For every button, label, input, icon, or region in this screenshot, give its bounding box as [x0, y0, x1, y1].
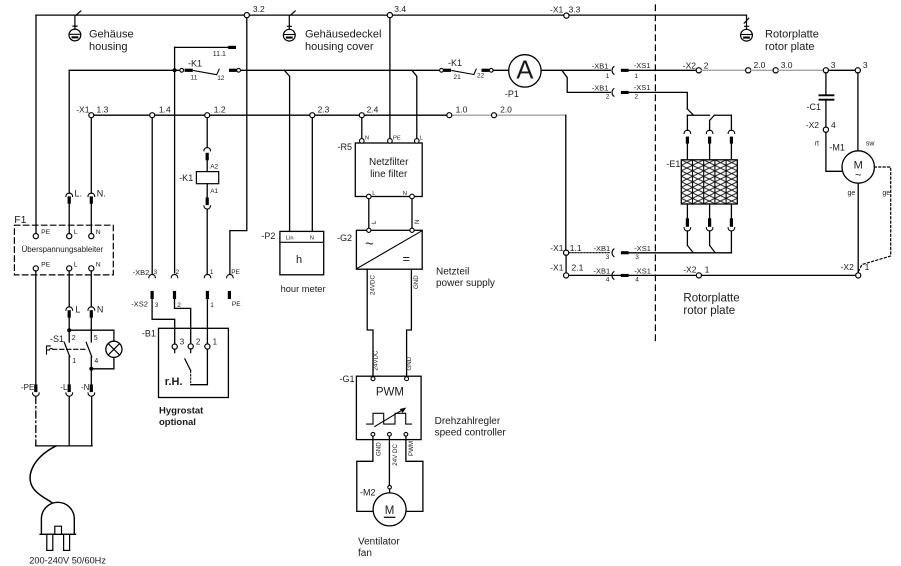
- svg-text:1.0: 1.0: [456, 105, 468, 115]
- ground Rotorplatte rotor plate: [741, 15, 819, 53]
- wire coil to A1 pin: [206, 184, 208, 198]
- svg-text:1: 1: [705, 265, 710, 275]
- svg-text:24VDC: 24VDC: [373, 350, 380, 370]
- wire tap to R5 L: [412, 70, 417, 138]
- wire cord bundle: [36, 445, 92, 447]
- svg-text:3.3: 3.3: [569, 5, 581, 15]
- wire N to cord: [91, 397, 93, 446]
- connector heater bottom pin 1: [684, 204, 691, 231]
- wire node3 to node3b: [829, 69, 856, 71]
- svg-text:-XS1: -XS1: [634, 83, 651, 92]
- heater bottom blade left: [687, 245, 693, 252]
- wire 3.2 to XB2 PE: [230, 18, 247, 275]
- connector heater top pin 2: [706, 130, 713, 160]
- S1 manual actuator F: [47, 346, 53, 354]
- svg-text:ge: ge: [882, 190, 890, 197]
- connector N socket-pin row2: [88, 304, 103, 317]
- connector XB1/XS1 pin 2: [592, 83, 651, 101]
- wire S1-1 down: [68, 357, 70, 385]
- dashed separator rotor plate: [654, 5, 656, 342]
- svg-text:-XS1: -XS1: [634, 61, 651, 70]
- wire A2 to coil: [206, 160, 208, 171]
- connector -PE pin-socket: [21, 383, 39, 396]
- wire 1.4 to XB2-3: [151, 118, 153, 275]
- wire K1 row main: [69, 69, 180, 71]
- svg-text:ge: ge: [848, 190, 856, 197]
- wire XS1-1 to X2:2: [629, 69, 697, 71]
- B1 contact travel dashes: [190, 371, 192, 384]
- wire R5 to G2 left: [369, 199, 378, 228]
- svg-text:4: 4: [635, 276, 639, 283]
- heater top blade middle: [710, 115, 715, 120]
- svg-text:-XB1: -XB1: [594, 266, 611, 275]
- connector -L pin-socket: [60, 383, 72, 396]
- svg-text:GND: GND: [406, 356, 413, 370]
- node X1 2.1: [550, 262, 583, 278]
- svg-text:2.0: 2.0: [500, 105, 512, 115]
- svg-text:Ventilator: Ventilator: [358, 537, 400, 548]
- svg-text:L.: L.: [75, 188, 83, 198]
- svg-text:L: L: [371, 220, 378, 224]
- heater bottom blade middle: [710, 246, 716, 253]
- svg-text:=: =: [403, 251, 411, 266]
- svg-text:2.1: 2.1: [572, 262, 584, 272]
- wire tap to XB1-2: [562, 70, 610, 92]
- svg-text:-XB1: -XB1: [594, 244, 611, 253]
- wire PE dash-dot to cord: [35, 397, 37, 446]
- B1 contact blade: [185, 359, 191, 371]
- svg-text:Hygrostat: Hygrostat: [159, 406, 204, 417]
- heater top drops: [687, 115, 731, 130]
- svg-text:24V DC: 24V DC: [392, 444, 399, 466]
- svg-text:-R5: -R5: [338, 142, 353, 152]
- R5 terminal L: [415, 135, 424, 143]
- svg-text:2: 2: [196, 337, 201, 346]
- F1 terminal PE bottom: [33, 261, 50, 271]
- text Rotorplatte rotor plate bottom: [683, 293, 739, 318]
- svg-text:1.4: 1.4: [159, 104, 171, 114]
- svg-text:N: N: [403, 191, 407, 197]
- contact K1 11/12 NC: [180, 58, 241, 82]
- svg-text:3: 3: [606, 254, 610, 261]
- svg-text:rt: rt: [815, 140, 819, 147]
- wire dotted ge loop: [858, 167, 890, 272]
- node 3.0: [773, 60, 793, 73]
- plug body: [29, 502, 106, 565]
- svg-text:2: 2: [606, 94, 610, 101]
- wire G1 GND to fan: [357, 436, 383, 511]
- R5 terminal N bottom: [403, 191, 415, 199]
- wire G1 24VDC to fan: [388, 436, 399, 493]
- svg-text:Rotorplatte: Rotorplatte: [683, 293, 739, 305]
- svg-text:GND: GND: [375, 442, 382, 456]
- connector XS2 pins: [131, 291, 241, 309]
- svg-text:L: L: [74, 261, 78, 268]
- wire motor to X2:1: [857, 183, 859, 273]
- heater top blade left: [687, 109, 693, 115]
- svg-text:-X2: -X2: [806, 120, 820, 130]
- junction dot K1 row: [173, 68, 177, 72]
- connector L socket-pin row2: [66, 304, 80, 317]
- wire 1.2 to A2: [206, 118, 208, 148]
- connector L. socket-pin: [66, 188, 82, 203]
- connector heater bottom pin 3: [728, 204, 735, 231]
- wire 2.4 to R5 N: [361, 118, 363, 139]
- svg-text:~: ~: [365, 236, 374, 253]
- svg-text:1.1: 1.1: [570, 243, 582, 253]
- R5 terminal L bottom: [367, 191, 377, 199]
- connector coil A1 pin-socket: [204, 198, 211, 210]
- contact K1 21/22 NC: [440, 58, 494, 81]
- svg-text:1: 1: [72, 358, 76, 365]
- node X2:4: [806, 120, 836, 147]
- wire L rail down: [68, 70, 70, 193]
- svg-text:-X1: -X1: [550, 262, 564, 272]
- wire L below F1: [68, 271, 70, 307]
- wire K1 coil branch vertical: [174, 47, 176, 273]
- svg-text:22: 22: [477, 73, 485, 80]
- svg-text:PE: PE: [41, 229, 51, 236]
- connector N. socket-pin: [88, 188, 106, 203]
- svg-text:4: 4: [94, 358, 98, 365]
- svg-text:-G1: -G1: [340, 374, 355, 384]
- wire dotted 1.1 to XB1-3: [569, 252, 610, 254]
- wire XS1-3 heater bus bottom: [629, 252, 732, 254]
- connector coil A2 socket-pin: [204, 148, 219, 171]
- svg-text:2: 2: [635, 94, 639, 101]
- svg-text:5: 5: [94, 335, 98, 342]
- wire 3.4 to R5 PE: [389, 18, 391, 139]
- ground Gehäuse housing: [69, 11, 134, 53]
- svg-text:21: 21: [454, 74, 462, 81]
- svg-text:speed controller: speed controller: [435, 428, 507, 439]
- F1 terminal N top: [89, 229, 101, 239]
- connector XB1/XS1 pin 1: [592, 61, 651, 80]
- heater top bus: [687, 114, 731, 116]
- svg-text:r.H.: r.H.: [165, 376, 183, 388]
- X1 terminal row line: [91, 114, 446, 116]
- wire N below F1: [90, 271, 92, 307]
- svg-text:F1: F1: [14, 214, 26, 226]
- svg-text:200-240V 50/60Hz: 200-240V 50/60Hz: [29, 556, 106, 566]
- svg-text:3: 3: [180, 337, 185, 346]
- text Hygrostat optional: [159, 406, 204, 428]
- F1 terminal N bottom: [89, 261, 101, 271]
- svg-text:1: 1: [213, 337, 218, 346]
- svg-text:A2: A2: [210, 164, 218, 171]
- S1 linkage dashed: [53, 348, 87, 350]
- speed controller G1: [340, 374, 507, 440]
- fan motor M2: [358, 488, 406, 560]
- B1 terminal 3: [172, 337, 185, 352]
- svg-text:rotor plate: rotor plate: [765, 41, 815, 53]
- node 3 capacitor branch: [823, 60, 835, 73]
- hygrostat B1 box: [142, 328, 229, 397]
- svg-text:Rotorplatte: Rotorplatte: [765, 29, 819, 41]
- node X1 1.3: [76, 104, 108, 117]
- wire XS2-3 to B1-3: [152, 299, 175, 344]
- svg-text:housing: housing: [89, 41, 128, 53]
- wire left border down to F1 PE: [35, 15, 37, 233]
- F1 terminal L bottom: [67, 261, 78, 271]
- svg-text:power supply: power supply: [436, 278, 495, 289]
- wire 2.1 to X2:1: [569, 274, 696, 276]
- svg-text:fan: fan: [358, 548, 372, 559]
- wire X2:4 to motor M1: [826, 132, 844, 171]
- node 2.0 mid: [492, 105, 513, 118]
- svg-text:4: 4: [606, 276, 610, 283]
- svg-text:Drehzahlregler: Drehzahlregler: [435, 416, 501, 427]
- svg-text:-N: -N: [81, 383, 90, 392]
- svg-text:PE: PE: [41, 261, 51, 268]
- wire gray 2.0 to 3.0: [751, 69, 773, 71]
- wire contact to meter: [493, 69, 508, 71]
- svg-text:2: 2: [176, 269, 180, 276]
- svg-text:-X1: -X1: [550, 5, 564, 15]
- svg-text:-XS1: -XS1: [634, 244, 651, 253]
- wire X2:1 to motor node: [702, 274, 856, 276]
- switch S1 pole 2-1: [50, 334, 76, 365]
- svg-text:N: N: [96, 261, 101, 268]
- wire tap to P2 Lin: [284, 70, 289, 231]
- svg-text:N: N: [97, 304, 104, 314]
- svg-text:h: h: [296, 254, 302, 266]
- connector heater bottom pin 2: [706, 204, 713, 231]
- capacitor C1: [807, 73, 834, 127]
- svg-text:3.4: 3.4: [394, 4, 406, 14]
- svg-text:optional: optional: [159, 417, 196, 428]
- heater bottom drops: [687, 231, 731, 253]
- svg-text:2.3: 2.3: [318, 104, 330, 114]
- svg-text:1: 1: [210, 302, 214, 309]
- switch S1 pole 5-4: [86, 335, 98, 365]
- R5 terminal PE: [388, 135, 401, 143]
- wire L to cord: [68, 397, 70, 446]
- wire XS2-1 to B1-1: [206, 299, 208, 344]
- svg-text:2.4: 2.4: [367, 104, 379, 114]
- hour meter P2: [261, 231, 325, 294]
- svg-text:A: A: [516, 57, 533, 85]
- svg-text:Lin: Lin: [286, 236, 294, 242]
- svg-text:-X2: -X2: [683, 60, 697, 70]
- svg-text:PWM: PWM: [408, 441, 415, 456]
- node X2:2: [683, 60, 709, 73]
- svg-text:hour meter: hour meter: [281, 284, 326, 294]
- wire corner down to X1 1.1: [565, 115, 567, 250]
- svg-text:-X2: -X2: [683, 265, 697, 275]
- svg-text:-B1: -B1: [142, 329, 156, 339]
- svg-text:-M1: -M1: [829, 142, 845, 152]
- svg-text:24VDC: 24VDC: [369, 275, 376, 295]
- svg-text:1: 1: [865, 262, 870, 272]
- svg-text:3.0: 3.0: [781, 60, 793, 70]
- node X1 1.1: [550, 243, 582, 255]
- lamp: [69, 330, 122, 369]
- connector -N pin-socket: [81, 383, 95, 396]
- junction dot lamp return: [89, 367, 93, 371]
- svg-text:-L: -L: [60, 383, 68, 392]
- wire G1 PWM to fan: [406, 436, 423, 511]
- node 3.4: [387, 4, 406, 18]
- svg-text:-XB1: -XB1: [592, 61, 609, 70]
- svg-text:-M2: -M2: [360, 488, 376, 498]
- B1 terminal 1: [205, 337, 218, 349]
- svg-text:-P1: -P1: [505, 89, 519, 99]
- node X1 1.4: [150, 104, 171, 117]
- wire XS2-2 to B1-2: [175, 299, 191, 344]
- junction dot lamp branch: [67, 328, 71, 332]
- svg-text:-E1: -E1: [666, 159, 680, 169]
- svg-text:3: 3: [863, 60, 868, 70]
- wire N rail down from 1.3: [90, 118, 92, 193]
- svg-text:1: 1: [606, 73, 610, 80]
- svg-text:2: 2: [72, 335, 76, 342]
- svg-text:-K1: -K1: [188, 58, 202, 68]
- svg-text:4: 4: [831, 120, 836, 130]
- svg-text:rotor plate: rotor plate: [683, 305, 735, 317]
- svg-text:A1: A1: [210, 188, 218, 195]
- wire N pin to F1: [90, 204, 92, 234]
- svg-text:Gehäusedeckel: Gehäusedeckel: [305, 29, 381, 41]
- svg-text:-S1: -S1: [50, 334, 64, 344]
- svg-text:PE: PE: [232, 301, 241, 308]
- wire gray 1.0 to 2.0 to corner: [452, 114, 566, 116]
- connector XB2 sockets: [133, 268, 241, 278]
- svg-text:-PE: -PE: [21, 383, 34, 392]
- svg-text:-P2: -P2: [261, 231, 275, 241]
- F1 terminal PE top: [33, 229, 50, 239]
- svg-text:1.3: 1.3: [97, 104, 109, 114]
- svg-text:-XB1: -XB1: [592, 83, 609, 92]
- svg-text:11: 11: [191, 75, 198, 82]
- svg-text:-X2: -X2: [841, 262, 855, 272]
- wire N pin2 to switch: [90, 318, 92, 342]
- svg-text:-K1: -K1: [448, 58, 462, 68]
- node X1 1.2: [205, 104, 226, 117]
- svg-text:Netzteil: Netzteil: [436, 267, 469, 278]
- connector XB1/XS1 pin 3: [594, 244, 651, 261]
- ground Gehäusedeckel housing cover: [283, 11, 381, 53]
- svg-text:-K1: -K1: [179, 173, 193, 183]
- node X2:1 left: [683, 265, 709, 278]
- node 2.0: [746, 60, 766, 73]
- svg-text:Gehäuse: Gehäuse: [89, 29, 134, 41]
- svg-text:Netzfilter: Netzfilter: [369, 157, 409, 168]
- svg-text:-XS1: -XS1: [634, 266, 651, 275]
- svg-text:~: ~: [855, 170, 861, 182]
- connector heater top pin 1: [684, 130, 691, 160]
- svg-text:N: N: [310, 236, 314, 242]
- svg-text:PE: PE: [231, 269, 240, 276]
- wire top PE rail: [36, 14, 747, 16]
- B1 terminal 2: [188, 337, 201, 352]
- R5 terminal N: [360, 135, 370, 143]
- wire PE below F1: [35, 271, 37, 384]
- svg-text:N: N: [365, 135, 369, 141]
- wire node3b to motor top: [857, 73, 859, 151]
- connector heater top pin 3: [728, 130, 735, 160]
- svg-text:3: 3: [831, 60, 836, 70]
- svg-text:12: 12: [217, 75, 225, 82]
- svg-text:3: 3: [635, 254, 639, 261]
- svg-text:M: M: [385, 505, 395, 517]
- ammeter P1: [505, 55, 541, 99]
- line filter R5: [338, 142, 423, 197]
- wire XS1-2 to heater bus: [629, 92, 688, 109]
- connector XB1/XS1 pin 4: [594, 266, 651, 283]
- svg-text:-X1: -X1: [76, 104, 90, 114]
- power supply G2: [337, 228, 495, 289]
- svg-text:N: N: [96, 229, 101, 236]
- B1 wire 2 to 1: [191, 349, 208, 385]
- svg-text:GND: GND: [413, 275, 420, 289]
- motor M1: [829, 140, 890, 197]
- node 1.0: [447, 105, 468, 118]
- svg-text:line filter: line filter: [370, 169, 408, 180]
- wire R5 to G2 right: [412, 199, 421, 228]
- node X1 2.3: [310, 104, 330, 117]
- svg-text:L: L: [420, 135, 424, 141]
- wire L pin2 to switch: [68, 318, 70, 342]
- svg-text:1: 1: [635, 73, 639, 80]
- node 3.2: [244, 4, 265, 18]
- svg-text:3: 3: [155, 302, 159, 309]
- wire L pin to F1: [68, 204, 70, 234]
- node X2:1 right: [841, 262, 870, 278]
- node 3 motor branch: [855, 60, 868, 73]
- wire S1-4 down: [90, 357, 92, 385]
- svg-text:-XB2: -XB2: [133, 268, 150, 277]
- svg-text:-XS2: -XS2: [131, 300, 148, 309]
- svg-text:3: 3: [154, 269, 158, 276]
- svg-text:PWM: PWM: [376, 387, 404, 399]
- wire G2 to G1 GND: [406, 269, 420, 376]
- heating element E1: [666, 159, 737, 204]
- svg-text:L: L: [74, 229, 78, 236]
- svg-text:sw: sw: [866, 140, 876, 147]
- svg-text:N.: N.: [97, 188, 106, 198]
- svg-text:L: L: [75, 304, 80, 314]
- svg-text:2: 2: [704, 60, 709, 70]
- wire gray 3.0 to node 3: [778, 69, 823, 71]
- svg-text:2.0: 2.0: [754, 60, 766, 70]
- relay coil K1: [179, 172, 219, 196]
- wire 1.1 to 2.1: [565, 255, 567, 272]
- node X1 2.4: [359, 104, 378, 117]
- svg-text:N: N: [414, 220, 421, 224]
- F1 terminal L top: [67, 229, 78, 239]
- svg-text:1: 1: [210, 269, 214, 276]
- svg-text:Überspannungsableiter: Überspannungsableiter: [22, 245, 104, 254]
- node -X1 3.3: [550, 5, 581, 19]
- surge arrester F1 box: [14, 214, 113, 275]
- svg-text:housing cover: housing cover: [305, 41, 374, 53]
- svg-text:-X1: -X1: [550, 243, 564, 253]
- svg-text:3.2: 3.2: [253, 4, 265, 14]
- power cord curve: [30, 446, 56, 503]
- svg-text:11.1: 11.1: [213, 51, 226, 58]
- terminal 11.1 stub: [175, 46, 236, 58]
- wire G2 to G1 24VDC: [367, 269, 379, 376]
- wire meter to XB1-1: [541, 69, 610, 71]
- wire 2.3 to P2 N: [311, 118, 313, 232]
- svg-text:PE: PE: [393, 135, 401, 141]
- svg-text:1.2: 1.2: [214, 104, 226, 114]
- svg-text:-C1: -C1: [807, 102, 822, 112]
- svg-text:-G2: -G2: [337, 233, 352, 243]
- wire A1 to XB2-1: [206, 209, 208, 274]
- wire gray X2:2 to 2.0: [701, 69, 745, 71]
